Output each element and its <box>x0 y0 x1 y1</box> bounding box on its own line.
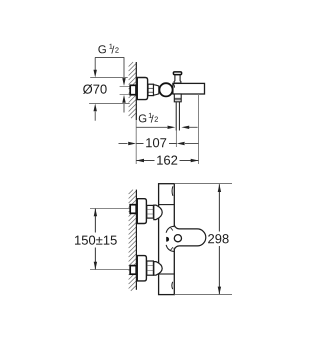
joint tick right of knob <box>174 84 175 88</box>
dim arrow: Ø70 bottom <box>94 104 97 121</box>
flange lower <box>137 256 146 281</box>
150 dim extension line lower (gray) <box>90 269 130 271</box>
circle on lever <box>174 235 181 242</box>
label G1/2 (top left, supply) <box>95 44 124 58</box>
150 dim extension line upper (gray) <box>90 208 130 210</box>
dim Ø70 extension lines <box>90 77 128 79</box>
body division line bottom <box>159 273 175 275</box>
dimension 150±15 <box>75 209 117 270</box>
extension line from body right bottom down to 162 row <box>198 94 200 164</box>
hex nut (side view) <box>148 84 154 95</box>
extension line from pipe down to 107 row <box>175 131 177 148</box>
298 extension line bottom <box>175 294 233 296</box>
pipe stub in wall <box>130 85 136 94</box>
dim arrow: G1/2 supply bottom <box>122 95 125 113</box>
handle knob circle <box>159 83 172 96</box>
dimension 162 row <box>136 155 198 166</box>
upper hook arc detail <box>166 226 174 233</box>
faucet body (horizontal) <box>173 83 205 94</box>
dimension 107 row <box>119 137 199 148</box>
body division line top <box>159 204 175 206</box>
safety stop dot <box>166 237 169 242</box>
label Ø70 <box>83 84 107 94</box>
dome cap lower <box>154 262 162 276</box>
temperature handle lever (stadium) <box>173 227 205 249</box>
dim arrow: G1/2 supply top <box>122 58 125 86</box>
escutcheon flange <box>137 78 147 100</box>
dome cap upper <box>154 205 162 220</box>
label G1/2 (lower, shower outlet) <box>139 113 158 123</box>
shower outlet pipe <box>175 102 177 131</box>
hex nut upper <box>147 205 154 218</box>
cone adapter <box>154 85 159 96</box>
right arrow of G1/2 pipe dim <box>181 126 197 129</box>
supply pipe lines (left of wall) <box>120 86 130 88</box>
298 extension line top <box>175 183 233 185</box>
shower outlet fitting under body <box>174 94 181 102</box>
pipe stub lower (in wall) <box>130 266 136 275</box>
diverter knob on top of body <box>174 75 181 83</box>
flange upper <box>137 199 146 224</box>
dimension 298 <box>208 184 228 294</box>
wall face line <box>135 62 137 120</box>
lower hook arc detail <box>166 245 174 252</box>
wall hatch (bottom view) <box>129 190 136 291</box>
bottom cap arc <box>171 282 174 289</box>
leader underline of lower G1/2 with arrow to pipe <box>136 126 175 129</box>
top cap arc <box>171 186 174 196</box>
faucet body (vertical) <box>159 184 175 295</box>
hex nut lower <box>147 261 154 275</box>
pipe stub upper (in wall) <box>130 205 136 214</box>
wall extension line down to dimension rows <box>135 120 137 164</box>
wall face line (bottom view) <box>135 190 137 290</box>
dim arrow: Ø70 top <box>94 58 97 78</box>
wall hatch (top view wall) <box>129 62 137 118</box>
diverter knob cap <box>173 72 181 75</box>
